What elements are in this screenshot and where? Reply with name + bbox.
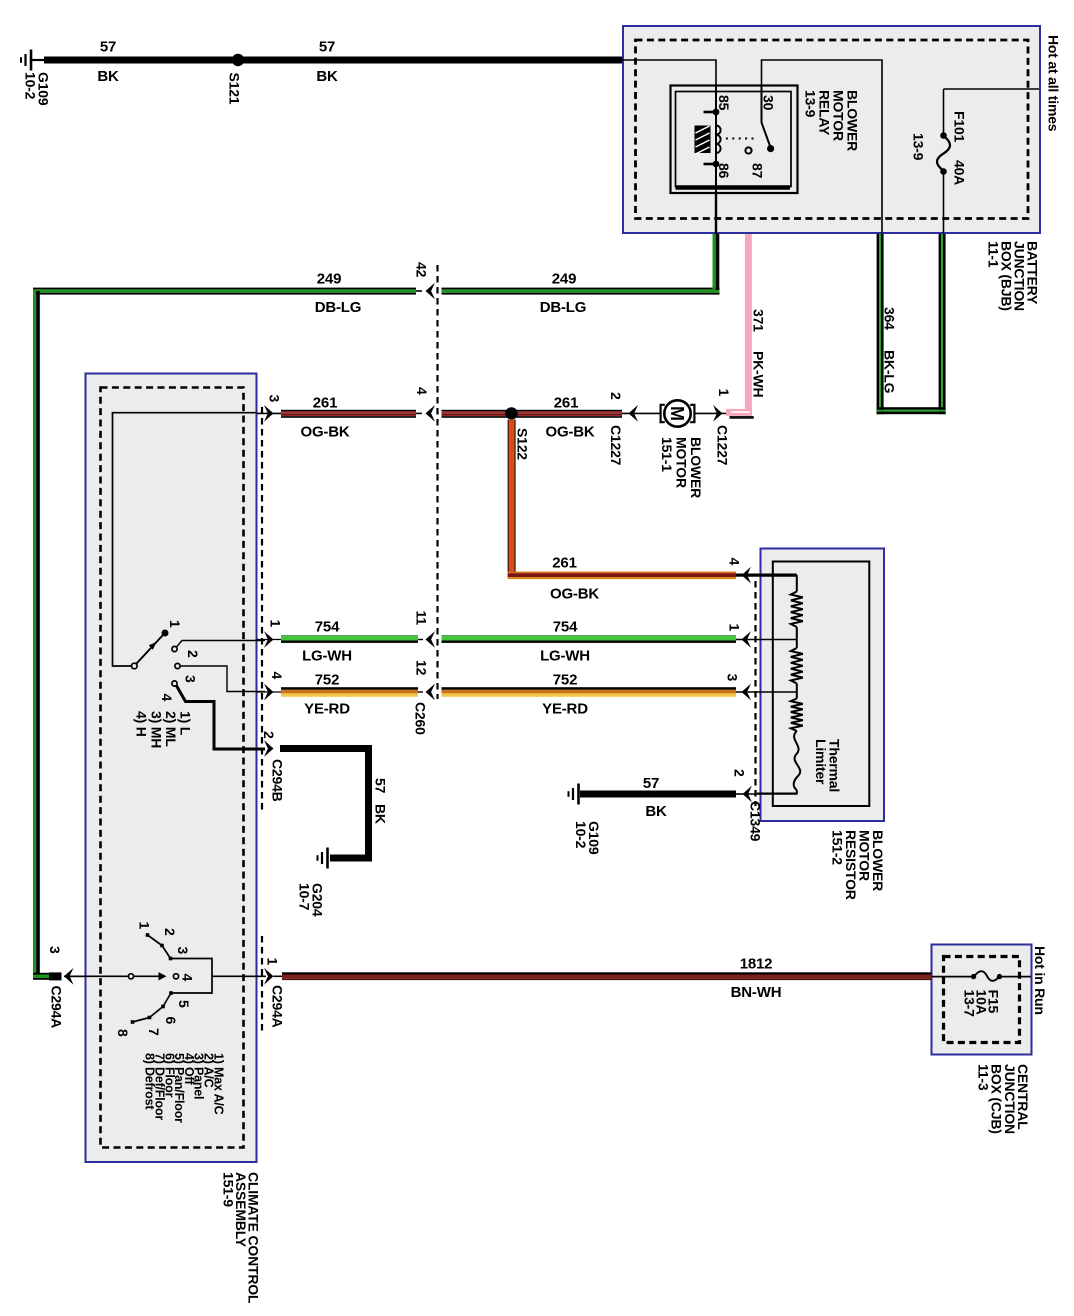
svg-text:10-7: 10-7 [297,883,313,911]
svg-text:6: 6 [163,1017,179,1025]
svg-text:10-2: 10-2 [573,821,589,849]
svg-text:DB-LG: DB-LG [315,299,362,316]
svg-text:DB-LG: DB-LG [540,299,587,316]
svg-text:10-2: 10-2 [23,72,39,100]
svg-text:57: 57 [319,39,335,56]
svg-text:5: 5 [176,1000,192,1008]
svg-text:3: 3 [47,946,63,954]
svg-text:1: 1 [167,620,183,628]
svg-text:13-7: 13-7 [962,990,978,1018]
svg-text:BK: BK [97,68,119,85]
svg-text:151-1: 151-1 [659,437,675,472]
svg-text:364: 364 [882,307,898,330]
svg-text:12: 12 [414,660,430,676]
svg-text:11-1: 11-1 [986,241,1002,268]
svg-text:1: 1 [727,624,743,632]
svg-text:8: 8 [115,1029,131,1037]
svg-text:371: 371 [751,309,767,332]
svg-text:261: 261 [313,395,337,412]
svg-text:151-9: 151-9 [221,1172,237,1207]
svg-text:BN-WH: BN-WH [731,984,782,1001]
svg-text:11: 11 [414,611,430,626]
svg-text:Hot in Run: Hot in Run [1032,946,1048,1015]
svg-text:85: 85 [716,95,732,111]
svg-text:7: 7 [146,1028,162,1036]
svg-text:4: 4 [414,387,430,395]
svg-text:13-9: 13-9 [803,90,819,118]
svg-text:2) ML: 2) ML [163,711,179,747]
svg-text:1: 1 [265,958,281,966]
svg-text:4: 4 [159,694,175,702]
svg-text:2: 2 [732,769,748,777]
svg-text:42: 42 [414,262,430,278]
svg-text:2: 2 [261,731,277,739]
svg-text:4: 4 [180,974,196,982]
svg-text:C1227: C1227 [608,425,624,466]
svg-text:57: 57 [643,775,659,792]
svg-text:261: 261 [554,395,578,412]
svg-text:OG-BK: OG-BK [546,424,595,441]
svg-text:C260: C260 [413,702,429,735]
svg-text:M: M [667,406,687,421]
svg-text:OG-BK: OG-BK [550,586,599,603]
svg-text:LG-WH: LG-WH [302,648,352,665]
svg-text:S122: S122 [515,428,531,460]
svg-text:BK-LG: BK-LG [882,350,898,394]
svg-text:1812: 1812 [740,956,773,973]
svg-text:87: 87 [750,163,766,179]
svg-text:13-9: 13-9 [911,133,927,161]
svg-text:S121: S121 [227,73,243,105]
svg-text:4: 4 [727,558,743,566]
svg-text:249: 249 [552,271,576,288]
svg-text:Hot at all times: Hot at all times [1046,35,1062,132]
svg-text:C294A: C294A [270,985,286,1028]
svg-text:2: 2 [185,650,201,658]
svg-text:3: 3 [183,675,199,683]
svg-text:40A: 40A [952,160,968,185]
svg-text:151-2: 151-2 [830,830,846,865]
svg-text:30: 30 [761,95,777,111]
svg-text:1: 1 [268,620,284,628]
svg-text:261: 261 [552,555,576,572]
svg-text:3: 3 [725,674,741,682]
svg-text:F101: F101 [952,111,968,143]
svg-text:249: 249 [317,271,341,288]
svg-text:3: 3 [175,947,191,955]
svg-text:11-3: 11-3 [975,1064,991,1091]
svg-text:754: 754 [315,619,340,636]
svg-text:3) MH: 3) MH [148,711,164,748]
svg-text:BK: BK [645,803,667,820]
svg-text:C1227: C1227 [715,425,731,466]
svg-text:C294A: C294A [49,986,65,1029]
svg-text:LG-WH: LG-WH [540,648,590,665]
svg-text:2: 2 [608,392,624,400]
svg-text:1: 1 [716,389,732,397]
svg-text:754: 754 [553,619,578,636]
svg-text:OG-BK: OG-BK [301,424,350,441]
svg-text:8) Defrost: 8) Defrost [143,1053,157,1110]
svg-text:2: 2 [162,928,178,936]
svg-text:YE-RD: YE-RD [542,701,588,718]
svg-text:86: 86 [716,163,732,179]
svg-text:BK: BK [373,804,389,824]
svg-text:BK: BK [316,68,338,85]
svg-text:3: 3 [267,395,283,403]
svg-text:YE-RD: YE-RD [304,701,350,718]
svg-text:C1349: C1349 [748,801,764,842]
svg-text:PK-WH: PK-WH [751,351,767,398]
svg-text:57: 57 [100,39,116,56]
svg-text:752: 752 [553,672,577,689]
svg-text:752: 752 [315,672,339,689]
svg-text:Limiter: Limiter [813,739,829,785]
svg-text:4: 4 [269,672,285,680]
svg-text:57: 57 [373,778,389,794]
svg-text:C294B: C294B [270,759,286,802]
svg-text:4) H: 4) H [134,711,150,737]
svg-text:1: 1 [137,922,153,930]
svg-text:1) L: 1) L [178,711,194,736]
